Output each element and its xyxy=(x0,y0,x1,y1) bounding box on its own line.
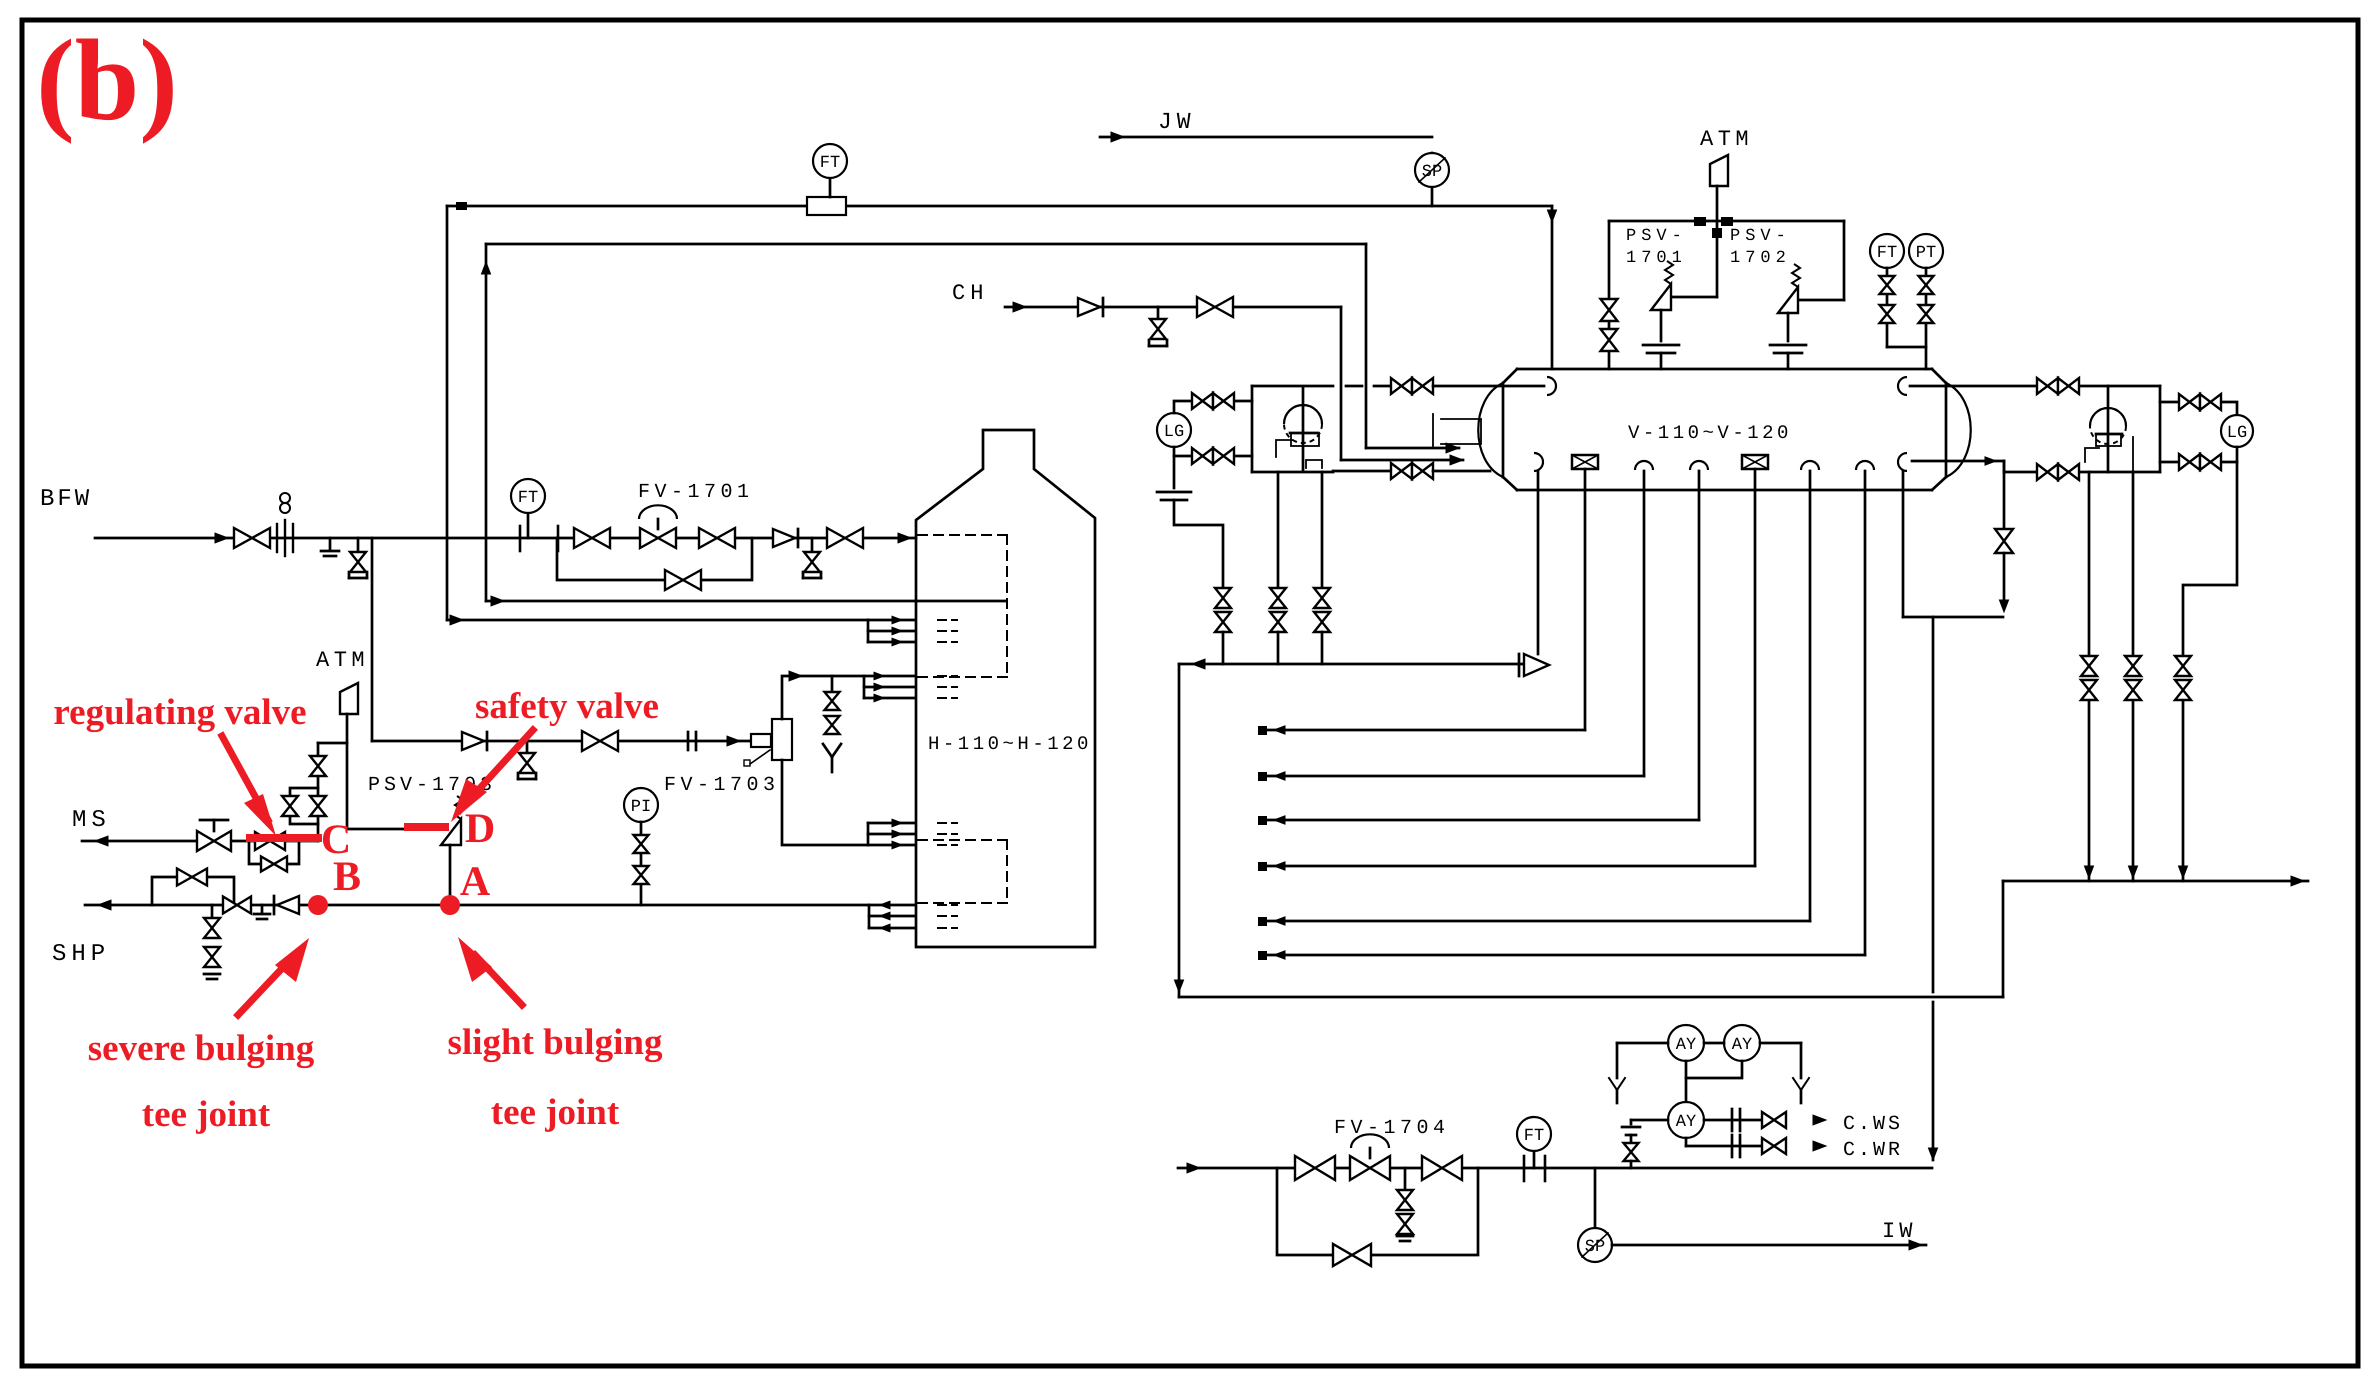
svg-text:FT: FT xyxy=(1877,244,1897,263)
steam line right xyxy=(1910,385,2160,388)
instrument SP bottom xyxy=(1594,1168,1597,1228)
svg-text:1702: 1702 xyxy=(1730,249,1791,268)
bypass loop xyxy=(1277,1168,1478,1255)
block valve leg xyxy=(1608,221,1611,369)
gate valve on BFW xyxy=(234,528,270,548)
svg-text:ATM: ATM xyxy=(316,648,369,673)
coil feed line lower xyxy=(447,619,868,622)
instrument AY 1 xyxy=(1668,1025,1704,1061)
svg-text:AY: AY xyxy=(1676,1113,1696,1132)
bypass valve xyxy=(177,869,207,886)
svg-text:CH: CH xyxy=(952,281,988,306)
FT root valves xyxy=(1886,268,1889,347)
LG drain leg xyxy=(1173,456,1176,488)
relief valve PSV-1702 xyxy=(1843,221,1846,300)
svg-text:AY: AY xyxy=(1732,1036,1752,1055)
svg-text:PSV-: PSV- xyxy=(1626,227,1687,246)
svg-text:BFW: BFW xyxy=(40,486,92,513)
drum nozzle drops xyxy=(1537,471,1540,654)
red arrow to B xyxy=(238,960,290,1015)
svg-text:PI: PI xyxy=(631,798,651,817)
svg-text:H-110~H-120: H-110~H-120 xyxy=(928,733,1092,755)
FV-1701 bypass xyxy=(557,538,752,580)
fan line 3 xyxy=(1262,819,1699,822)
drum top nozzle right xyxy=(1898,377,1907,395)
valve FV-1703 body xyxy=(772,719,792,760)
C riser xyxy=(317,743,320,841)
node D red mark xyxy=(404,823,449,831)
check valve on BFW xyxy=(773,529,795,547)
SHP line xyxy=(85,904,869,907)
svg-text:D: D xyxy=(465,806,495,852)
bottom header xyxy=(1179,996,2003,999)
safety valve PSV-1703 xyxy=(441,819,461,845)
instrument PT on drum xyxy=(1909,234,1943,268)
svg-text:MS: MS xyxy=(72,807,111,834)
svg-text:1701: 1701 xyxy=(1626,249,1687,268)
CH drop to drum dome xyxy=(1340,307,1343,460)
PSV-1703 outlet line xyxy=(347,828,440,831)
svg-text:JW: JW xyxy=(1158,109,1196,135)
svg-text:C.WS: C.WS xyxy=(1843,1113,1903,1136)
FV-1703 flange xyxy=(751,734,771,747)
svg-text:tee joint: tee joint xyxy=(142,1094,271,1135)
AY3 left leg xyxy=(1631,1119,1668,1122)
svg-text:SP: SP xyxy=(1422,163,1442,182)
line L2 drop to drum dome xyxy=(1365,244,1368,448)
SHP bypass loop xyxy=(152,877,234,905)
vent valve upper xyxy=(310,756,326,776)
PT root valves xyxy=(1925,268,1928,369)
instrument FT on BFW xyxy=(527,513,530,538)
LG right top tap xyxy=(2160,402,2237,415)
node C red mark xyxy=(246,834,322,842)
solenoid Y right xyxy=(1800,1043,1803,1078)
drain valve below BFW xyxy=(357,538,360,551)
vent branch to C riser xyxy=(318,742,347,745)
check valve on CH xyxy=(1078,298,1100,316)
svg-text:FT: FT xyxy=(518,489,538,508)
solenoid Y left xyxy=(1616,1043,1619,1078)
AY link lines xyxy=(1617,1042,1668,1045)
ATM vent flag xyxy=(340,683,358,714)
svg-text:LG: LG xyxy=(1164,423,1184,442)
instrument AY 3 xyxy=(1668,1102,1704,1138)
node A red dot xyxy=(440,895,460,915)
gate valve xyxy=(1295,1156,1335,1180)
PI root valves xyxy=(640,822,643,905)
seal pot bracket xyxy=(1432,414,1434,446)
sample legs with double valves xyxy=(2088,472,2091,654)
svg-text:IW: IW xyxy=(1882,1219,1916,1244)
gate valve on SHP xyxy=(223,897,251,914)
node B red dot xyxy=(308,895,328,915)
tee to FV-1703 line xyxy=(371,538,374,741)
FV-1703 leader line xyxy=(750,750,770,764)
drain valve xyxy=(811,538,814,551)
line L1 left corner junction xyxy=(456,202,467,210)
dome feed from CH xyxy=(1341,459,1463,462)
fan line 6 xyxy=(1262,954,1865,957)
svg-text:SHP: SHP xyxy=(52,941,110,968)
svg-text:C.WR: C.WR xyxy=(1843,1139,1903,1162)
drain header drop xyxy=(1932,617,1935,992)
svg-text:PSV-: PSV- xyxy=(1730,227,1791,246)
instrument PI xyxy=(624,788,658,822)
vent header box xyxy=(1609,220,1844,223)
pump box left xyxy=(1251,386,1254,472)
CH line xyxy=(1005,306,1341,309)
svg-text:B: B xyxy=(333,854,361,900)
line L1 right drop to drum xyxy=(1551,206,1554,369)
bypass valve xyxy=(261,857,287,872)
svg-text:V-110~V-120: V-110~V-120 xyxy=(1628,422,1792,444)
svg-text:tee joint: tee joint xyxy=(491,1092,620,1133)
gate valve before vessel xyxy=(827,528,863,548)
FV-1703 riser to vessel xyxy=(782,676,864,719)
check valve xyxy=(462,732,484,750)
gate valve after FV-1701 xyxy=(699,528,735,548)
arrow into vessel H xyxy=(898,533,911,543)
blowdown header xyxy=(2003,880,2308,883)
vessel inlet bracket lower xyxy=(867,823,870,845)
drum drain line xyxy=(1985,457,1996,465)
bypass valve xyxy=(665,570,701,590)
drum top nozzle left xyxy=(1547,377,1556,395)
drum feed line lower xyxy=(1333,470,1391,473)
orifice flanges on BFW xyxy=(519,526,522,551)
pump left (dashed casing) xyxy=(1284,405,1322,443)
drain tick xyxy=(261,905,264,912)
vent 8 symbol xyxy=(280,493,290,503)
svg-text:regulating valve: regulating valve xyxy=(53,692,306,733)
AY2 to AY3 link xyxy=(1686,1061,1742,1078)
CH drain valve xyxy=(1157,307,1160,318)
valve under red mark xyxy=(255,832,285,850)
svg-text:FV-1701: FV-1701 xyxy=(638,481,754,504)
LG right bottom tap xyxy=(2160,447,2237,462)
instrument FT xyxy=(1533,1151,1536,1168)
drain tick on BFW xyxy=(329,538,332,549)
riser from A to PSV-1703 xyxy=(449,845,452,905)
parallel block valves xyxy=(290,788,318,824)
MS bypass loop xyxy=(249,841,299,864)
vessel outlet bracket to SHP xyxy=(868,905,871,928)
spec break xyxy=(687,732,690,750)
LG right drain leg xyxy=(2183,462,2237,654)
drain jog xyxy=(1903,616,2003,619)
dome feed from L2 xyxy=(1366,447,1459,450)
coil dashed box lower xyxy=(918,839,1007,841)
fan line 4 xyxy=(1262,865,1755,868)
relief valve PSV-1701 xyxy=(1673,296,1717,299)
instrument LG right xyxy=(2221,415,2253,447)
instrument AY 2 xyxy=(1724,1025,1760,1061)
drum feed line upper xyxy=(1346,385,1362,388)
instrument SP on L1 xyxy=(1431,153,1434,206)
coil feed line upper xyxy=(486,600,1006,603)
drum bottom nozzles xyxy=(1534,453,1543,471)
arrow to FV-1703 xyxy=(727,736,740,746)
LG bottom tap xyxy=(1174,447,1252,456)
svg-text:AY: AY xyxy=(1676,1036,1696,1055)
regulating valve with handwheel xyxy=(197,831,231,851)
svg-text:FT: FT xyxy=(1524,1127,1544,1146)
JW line xyxy=(1100,136,1432,139)
fan line 5 xyxy=(1262,920,1810,923)
gate valve on CH xyxy=(1197,297,1233,317)
gate valve xyxy=(574,528,610,548)
svg-text:safety valve: safety valve xyxy=(475,686,659,727)
control valve FV-1704 xyxy=(1350,1156,1390,1180)
pump discharge legs xyxy=(1277,472,1280,588)
blowdown collect line xyxy=(1179,663,1538,666)
LG top tap xyxy=(1174,401,1252,413)
BFW feed line xyxy=(95,537,916,540)
line L1 steam header xyxy=(447,205,1552,208)
control valve FV-1701 xyxy=(640,528,676,548)
svg-text:PT: PT xyxy=(1916,244,1936,263)
ATM flag top xyxy=(1710,155,1728,186)
instrument FT on drum xyxy=(1870,234,1904,268)
red arrow to A xyxy=(475,955,522,1005)
C.WR line xyxy=(1685,1138,1688,1146)
pump box right xyxy=(2159,386,2162,472)
FV-1704 line xyxy=(1178,1167,1932,1170)
fan line 2 xyxy=(1262,775,1644,778)
drum V-110~V-120 shell xyxy=(1517,368,1932,371)
svg-text:FV-1703: FV-1703 xyxy=(664,774,780,797)
flow orifice on L1 xyxy=(807,197,846,215)
svg-text:severe bulging: severe bulging xyxy=(88,1028,315,1069)
fan line 1 xyxy=(1262,729,1585,732)
svg-text:SP: SP xyxy=(1585,1238,1605,1257)
MS line xyxy=(82,840,318,843)
bypass valve xyxy=(1333,1244,1371,1266)
vessel H-110~H-120 outline xyxy=(916,430,1095,947)
svg-text:slight bulging: slight bulging xyxy=(448,1022,663,1063)
strainer on BFW xyxy=(276,524,278,552)
ATM stem xyxy=(1716,186,1719,297)
coil stub dashes xyxy=(938,619,957,621)
SHP drain valves xyxy=(211,905,214,917)
junction squares xyxy=(1694,217,1706,226)
line L2 left corner xyxy=(481,262,490,274)
svg-text:FT: FT xyxy=(820,154,840,173)
svg-text:ATM: ATM xyxy=(1700,127,1753,152)
red arrow to C xyxy=(222,736,268,820)
svg-text:LG: LG xyxy=(2227,424,2247,443)
instrument LG left xyxy=(1157,413,1191,447)
instrument FT on L1 xyxy=(829,178,832,197)
drum outlet lower right xyxy=(1912,460,2004,463)
vessel inlet bracket upper xyxy=(863,676,866,698)
svg-text:A: A xyxy=(460,859,491,905)
manifold drop xyxy=(1178,664,1181,997)
coil dashed box upper xyxy=(918,534,1007,536)
gate valve xyxy=(582,731,618,751)
red arrow to D xyxy=(460,730,533,810)
pump right (dashed casing) xyxy=(2090,408,2126,444)
double valves xyxy=(1215,588,1231,608)
FV-1703 line xyxy=(372,740,772,743)
vessel inlet bracket top xyxy=(867,620,870,642)
drain valve with seat xyxy=(526,741,529,752)
IW line xyxy=(1612,1244,1926,1247)
drain double valve xyxy=(1404,1168,1407,1190)
line L2 header xyxy=(486,243,1366,246)
orifice flanges xyxy=(1523,1156,1526,1181)
FV-1703 drop leg xyxy=(782,760,868,845)
outlet valves right xyxy=(2037,464,2058,480)
C.WS line xyxy=(1704,1119,1764,1122)
ATM vent stem xyxy=(346,714,349,829)
svg-text:(b): (b) xyxy=(36,17,178,145)
drain branch with funnel xyxy=(831,676,834,692)
svg-text:FV-1704: FV-1704 xyxy=(1334,1117,1450,1140)
gate valve xyxy=(1422,1156,1462,1180)
check valve on SHP xyxy=(277,896,299,914)
